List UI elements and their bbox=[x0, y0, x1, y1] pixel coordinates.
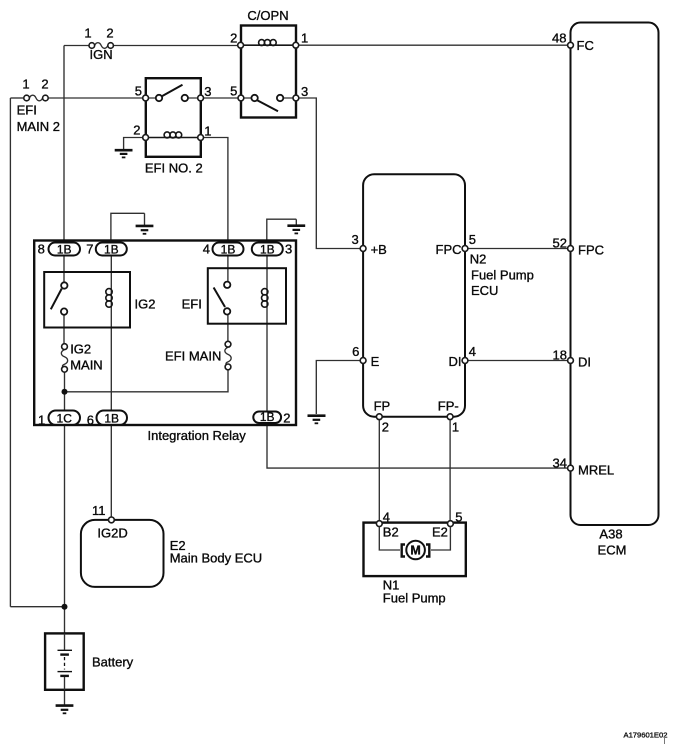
ground below battery bbox=[56, 706, 74, 714]
svg-text:Integration Relay: Integration Relay bbox=[148, 428, 247, 443]
node relay internal junction bbox=[62, 389, 68, 395]
coil EFI bbox=[262, 289, 268, 295]
wire relay pin 6 to E2 pin 11 bbox=[110, 425, 112, 517]
svg-text:B2: B2 bbox=[383, 525, 399, 540]
fuel pump N1 box bbox=[364, 510, 466, 606]
svg-text:A38: A38 bbox=[599, 527, 622, 542]
svg-text:Main Body ECU: Main Body ECU bbox=[170, 551, 262, 566]
fuel pump ECU N2 box bbox=[363, 174, 534, 417]
svg-text:18: 18 bbox=[553, 348, 567, 363]
wire C/OPN pin 1 to ECM FC bbox=[298, 44, 568, 46]
svg-text:1B: 1B bbox=[260, 242, 275, 256]
coil IG2 bbox=[106, 289, 112, 295]
relay pin oval 4 (1B) bbox=[203, 242, 244, 257]
svg-text:E: E bbox=[371, 354, 380, 369]
switch EFI bbox=[214, 288, 225, 308]
relay internal wire EFI MAIN fuse down and left to junction bbox=[65, 369, 229, 391]
svg-text:48: 48 bbox=[552, 31, 566, 46]
relay sub-box EFI contacts bbox=[182, 268, 286, 324]
svg-text:A179601E02: A179601E02 bbox=[624, 731, 668, 740]
svg-text:4: 4 bbox=[469, 344, 476, 359]
svg-text:34: 34 bbox=[553, 456, 567, 471]
switch of C/OPN bbox=[244, 97, 294, 99]
wire battery to ground bbox=[64, 690, 66, 705]
wire pump pin 4 to motor bbox=[379, 527, 400, 551]
svg-text:IGN: IGN bbox=[90, 47, 113, 62]
relay internal wire pin8 to IG2 switch bbox=[63, 256, 65, 283]
wire EFI NO.2 pin 1 to relay pin 4 bbox=[203, 138, 228, 243]
relay C/OPN bbox=[230, 8, 308, 118]
svg-text:IG2: IG2 bbox=[70, 342, 91, 357]
svg-text:2: 2 bbox=[106, 26, 113, 41]
ECM A38 box bbox=[571, 23, 659, 558]
switch of EFI NO.2 bbox=[149, 97, 199, 99]
svg-text:5: 5 bbox=[230, 84, 237, 99]
svg-text:DI: DI bbox=[449, 354, 462, 369]
svg-text:MREL: MREL bbox=[578, 463, 614, 478]
wire relay pin 1C to battery bbox=[64, 425, 66, 633]
ECM pin 34 MREL bbox=[553, 456, 615, 478]
svg-text:1: 1 bbox=[301, 31, 308, 46]
svg-text:FPC: FPC bbox=[436, 242, 462, 257]
svg-text:4: 4 bbox=[203, 242, 210, 257]
ground above relay pin 7 bbox=[136, 226, 154, 234]
wire left drop from IGN to relay pin 8 bbox=[63, 46, 65, 243]
wire IGN fuse to C/OPN pin 2 bbox=[114, 45, 239, 47]
svg-text:N2: N2 bbox=[470, 252, 487, 267]
svg-text:5: 5 bbox=[135, 84, 142, 99]
svg-text:5: 5 bbox=[469, 232, 476, 247]
svg-text:E2: E2 bbox=[432, 525, 448, 540]
svg-text:8: 8 bbox=[38, 242, 45, 257]
svg-text:2: 2 bbox=[230, 31, 237, 46]
pin 3 +B bbox=[351, 232, 386, 257]
fuse IG2 MAIN (vertical) bbox=[61, 342, 102, 373]
relay internal wire IG2 MAIN fuse to pin 1C bbox=[64, 372, 66, 410]
wire battery junction horizontal bbox=[10, 606, 64, 608]
svg-text:IG2: IG2 bbox=[135, 297, 156, 312]
wire C/OPN pin 3 to +B of fuel pump ECU bbox=[298, 98, 361, 249]
wire FPC to ECM 52 bbox=[467, 248, 569, 250]
ground for fuel pump ECU E pin bbox=[308, 416, 326, 424]
wire FP to pump pin 4 bbox=[378, 420, 380, 521]
svg-text:EFI NO. 2: EFI NO. 2 bbox=[145, 160, 203, 175]
svg-text:1B: 1B bbox=[221, 242, 236, 256]
svg-text:6: 6 bbox=[352, 344, 359, 359]
pin 6 E bbox=[352, 344, 379, 369]
svg-text:1B: 1B bbox=[57, 242, 72, 256]
wire EFI MAIN 2 fuse to EFI NO.2 pin 5 bbox=[47, 97, 143, 99]
svg-text:IG2D: IG2D bbox=[97, 526, 127, 541]
relay EFI NO. 2 bbox=[133, 78, 211, 175]
svg-text:1: 1 bbox=[22, 77, 29, 92]
wire EFI NO.2 pin 3 to C/OPN pin 5 bbox=[203, 97, 239, 99]
svg-text:ECM: ECM bbox=[598, 543, 627, 558]
svg-text:1C: 1C bbox=[57, 411, 73, 425]
relay sub-box IG2 contacts bbox=[44, 272, 155, 328]
svg-text:DI: DI bbox=[578, 355, 591, 370]
relay internal wire pin4 to EFI switch bbox=[227, 256, 229, 282]
svg-text:2: 2 bbox=[41, 77, 48, 92]
svg-text:M: M bbox=[410, 544, 420, 558]
wire ground to relay pin 7 bbox=[111, 213, 145, 240]
node battery junction bbox=[62, 604, 68, 610]
coil of C/OPN bbox=[243, 44, 293, 46]
svg-text:1B: 1B bbox=[104, 242, 119, 256]
svg-text:+B: +B bbox=[371, 242, 387, 257]
wire EFI MAIN 2 feed stub bbox=[10, 97, 24, 99]
wire FP- to pump pin 5 bbox=[449, 420, 451, 521]
svg-text:C/OPN: C/OPN bbox=[247, 8, 288, 23]
E2 Main Body ECU box bbox=[81, 503, 262, 587]
svg-text:4: 4 bbox=[383, 510, 390, 525]
ground below EFI NO.2 pin 2 bbox=[115, 150, 133, 157]
svg-text:52: 52 bbox=[553, 236, 567, 251]
svg-text:Battery: Battery bbox=[92, 655, 134, 670]
svg-text:MAIN 2: MAIN 2 bbox=[17, 119, 60, 134]
pin 2 FP bbox=[374, 399, 391, 435]
svg-text:1: 1 bbox=[38, 413, 45, 428]
battery bbox=[45, 633, 134, 689]
svg-text:1: 1 bbox=[204, 124, 211, 139]
svg-text:1: 1 bbox=[84, 26, 91, 41]
svg-text:7: 7 bbox=[86, 242, 93, 257]
svg-text:FP-: FP- bbox=[438, 399, 459, 414]
ECM pin 48 FC bbox=[552, 31, 594, 54]
motor M of fuel pump bbox=[402, 541, 430, 560]
wire E pin to ground bbox=[316, 361, 361, 415]
relay internal wire EFI switch to EFI MAIN fuse bbox=[227, 315, 229, 342]
svg-text:ECU: ECU bbox=[471, 283, 498, 298]
ECM pin 18 DI bbox=[553, 348, 591, 370]
ground above relay pin 3 bbox=[287, 226, 305, 234]
wire IGN feed left segment bbox=[64, 45, 89, 47]
ECM pin 52 FPC bbox=[553, 236, 604, 258]
fuse EFI MAIN (vertical) bbox=[165, 341, 231, 369]
relay pin oval 6 (1B) bbox=[87, 411, 127, 428]
svg-text:1: 1 bbox=[452, 420, 459, 435]
svg-text:11: 11 bbox=[92, 503, 106, 518]
svg-text:6: 6 bbox=[87, 413, 94, 428]
svg-text:EFI: EFI bbox=[17, 103, 37, 118]
svg-text:2: 2 bbox=[133, 122, 140, 137]
Integration Relay outer box bbox=[34, 241, 296, 444]
svg-text:1B: 1B bbox=[260, 410, 275, 424]
svg-text:FPC: FPC bbox=[578, 243, 604, 258]
svg-text:MAIN: MAIN bbox=[70, 358, 103, 373]
relay pin oval 8 (1B) bbox=[38, 242, 80, 257]
relay pin oval 2 (1B) bbox=[253, 410, 290, 425]
relay internal wire pin7 through IG2 coil to pin6 bbox=[110, 256, 112, 411]
wire relay pin 2 to ECM MREL bbox=[267, 425, 569, 468]
wire left branch vertical to battery junction bbox=[9, 98, 11, 607]
fuse IGN bbox=[84, 26, 113, 63]
svg-text:1B: 1B bbox=[104, 411, 119, 425]
svg-text:3: 3 bbox=[301, 84, 308, 99]
svg-text:EFI MAIN: EFI MAIN bbox=[165, 349, 221, 364]
switch IG2 bbox=[51, 289, 62, 310]
svg-text:EFI: EFI bbox=[182, 297, 202, 312]
pin 1 FP- bbox=[438, 399, 459, 435]
pin 5 FPC bbox=[436, 232, 476, 257]
svg-text:5: 5 bbox=[455, 510, 462, 525]
relay pin oval 3 (1B) bbox=[252, 242, 292, 257]
relay internal wire pin3 through EFI coil to pin2 bbox=[266, 256, 268, 411]
wire ground to relay pin 3 bbox=[267, 219, 297, 240]
pin 4 DI bbox=[449, 344, 476, 369]
relay internal wire IG2 switch to IG2 MAIN fuse bbox=[63, 315, 65, 344]
wire DI to ECM 18 bbox=[467, 360, 569, 362]
watermark A179601E02 bbox=[624, 731, 668, 745]
fuse EFI MAIN 2 bbox=[17, 77, 60, 135]
svg-text:Fuel Pump: Fuel Pump bbox=[471, 268, 534, 283]
svg-text:2: 2 bbox=[382, 420, 389, 435]
svg-text:Fuel Pump: Fuel Pump bbox=[383, 591, 446, 606]
svg-text:3: 3 bbox=[351, 232, 358, 247]
coil of EFI NO.2 bbox=[149, 137, 199, 139]
wire pump pin 5 to motor bbox=[431, 527, 450, 551]
svg-text:3: 3 bbox=[204, 84, 211, 99]
svg-text:2: 2 bbox=[283, 411, 290, 426]
svg-text:FC: FC bbox=[577, 38, 594, 53]
relay pin oval 7 (1B) bbox=[86, 242, 127, 257]
svg-text:FP: FP bbox=[374, 399, 391, 414]
svg-text:3: 3 bbox=[285, 242, 292, 257]
wire EFI NO.2 pin 2 to ground bbox=[124, 138, 144, 150]
relay pin oval 1 (1C) bbox=[38, 411, 80, 428]
